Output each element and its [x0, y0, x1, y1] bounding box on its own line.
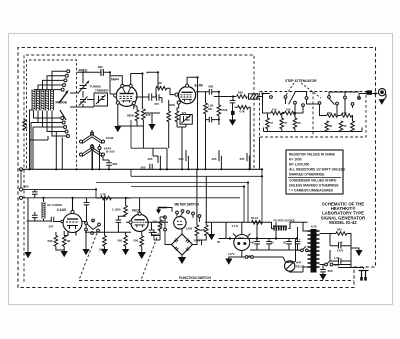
V2 cathode resistors: [167, 111, 171, 122]
svg-text:4.7 K: 4.7 K: [232, 224, 239, 228]
svg-text:20: 20: [283, 241, 287, 245]
AC line plug: [359, 271, 369, 278]
coil shield dashed box: [27, 60, 77, 168]
PS cap ground line: [250, 249, 300, 251]
svg-text:1W: 1W: [208, 107, 213, 111]
meter series resistors: [195, 225, 199, 236]
switch contact ring upper 2: [63, 84, 66, 87]
input terminal B: [19, 196, 22, 199]
coil top leads to switch contacts: [34, 89, 62, 91]
primary winding teeth: [308, 231, 311, 267]
V1 ground: [118, 104, 144, 126]
svg-text:47: 47: [284, 121, 287, 125]
on-off switch: [301, 249, 304, 252]
attenuator output line: [359, 93, 377, 95]
V3 cathode resistor: [54, 236, 58, 247]
wafer1 contact d: [302, 104, 305, 107]
function switch linkage diagonal 2: [141, 216, 165, 280]
svg-text:470: 470: [154, 102, 159, 106]
shielded lead hatch: [249, 94, 259, 99]
wafer2 contact e: [351, 103, 354, 106]
output wire to attenuator: [214, 96, 236, 98]
wafer1 rotor: [289, 92, 313, 105]
ground under divider: [101, 249, 108, 255]
heater bypass cap: [320, 270, 326, 272]
wafer1 contact f: [305, 97, 308, 100]
line cord wire: [338, 268, 364, 270]
routing wire 3: [96, 183, 248, 223]
TUNING variable capacitor: [79, 76, 88, 95]
svg-text:AF CHOKE: AF CHOKE: [47, 203, 62, 207]
svg-text:1.1500: 1.1500: [112, 208, 121, 212]
wafer2 contact b: [328, 96, 331, 99]
heater contact circles: [91, 147, 94, 150]
transformer core: [311, 229, 317, 273]
divider coupling cap: [116, 220, 122, 222]
tube V3 audio oscillator: [63, 198, 82, 236]
grid cap to V3: [51, 217, 53, 223]
svg-text:.047: .047: [48, 225, 54, 229]
V3 ground: [56, 231, 68, 251]
svg-text:1500: 1500: [221, 108, 228, 112]
svg-text:4.7K: 4.7K: [100, 193, 106, 197]
svg-text:METER SWITCH: METER SWITCH: [175, 203, 200, 207]
trimmer capacitor box: [94, 93, 108, 106]
divider resistor 560: [124, 236, 128, 247]
svg-text:680: 680: [209, 85, 214, 89]
chassis ground bus: [21, 168, 262, 170]
rotor lower arrow: [60, 110, 66, 120]
svg-text:STEP ATTENUATOR: STEP ATTENUATOR: [285, 79, 317, 83]
lower 4.7K resistor to dropline: [238, 106, 249, 110]
bypass cap at attenuator input: [230, 101, 236, 103]
svg-text:560: 560: [153, 220, 158, 224]
wafer1 top links: [296, 92, 307, 97]
attenuator internal ground rail: [264, 128, 363, 132]
wafer2 contact d: [344, 96, 347, 99]
attenuator label leader dashes: [286, 83, 321, 98]
svg-text:6.3V: 6.3V: [311, 225, 317, 229]
series resistor vertical at x126: [124, 206, 128, 217]
PS right ground: [351, 248, 359, 250]
feedback resistor on top wire: [101, 196, 112, 200]
cap on audio grid line: [32, 215, 38, 217]
coax output jack: [378, 89, 386, 100]
junction dots: [28, 71, 263, 199]
V3 pin circle: [61, 220, 64, 223]
function switch wafer F1: [85, 219, 101, 234]
wafer bottom rail: [85, 231, 131, 233]
cap under screen: [209, 117, 211, 123]
coax connector body: [367, 90, 373, 94]
svg-text:MODEL IG-42: MODEL IG-42: [329, 220, 357, 225]
svg-text:RANGE: RANGE: [56, 101, 68, 105]
grid wire with cap: [77, 71, 101, 73]
coil L5: [51, 90, 54, 111]
page scan border: [9, 34, 393, 305]
coil L3: [41, 90, 44, 111]
range switch rotor arrow: [59, 93, 67, 103]
attenuator input line: [263, 93, 271, 95]
filter cap h2: [339, 258, 341, 264]
grid cap C5 470: [156, 94, 162, 103]
terminal wire A: [21, 189, 96, 198]
coil L4: [46, 90, 49, 111]
svg-text:.005: .005: [140, 166, 146, 170]
attenuator box drop wire: [259, 137, 261, 169]
bypass cap 1: [158, 156, 160, 162]
wafer2 contact c: [336, 102, 339, 105]
svg-text:20: 20: [271, 241, 275, 245]
V4 ground: [141, 232, 143, 253]
B+ routing wire 2: [131, 169, 262, 176]
svg-text:117V: 117V: [228, 252, 235, 256]
electrolytic cap 4: [295, 242, 301, 244]
filter resistor 10K: [252, 221, 263, 225]
switch contact ring lower 3: [64, 126, 67, 129]
band switch wafer B2: [82, 148, 102, 157]
switch contact ring lower 1: [61, 117, 64, 120]
svg-text:600: 600: [24, 185, 29, 189]
V2 feedback trimmer box: [180, 115, 192, 125]
svg-text:100: 100: [272, 108, 277, 112]
function switch linkage dashed bottom rail: [79, 280, 354, 282]
svg-text:100: 100: [286, 108, 291, 112]
B+ routing wire 1: [131, 120, 167, 148]
switch contact ring upper 3: [64, 79, 67, 82]
coil L2: [37, 90, 40, 111]
wafer1 contact c: [294, 101, 297, 104]
svg-text:.005: .005: [97, 65, 103, 69]
svg-text:56K: 56K: [48, 239, 53, 243]
svg-text:68: 68: [329, 124, 332, 128]
secondary winding teeth: [317, 231, 320, 267]
V2 pin circles: [186, 84, 189, 87]
tube V4 output amp: [131, 214, 148, 231]
V1 cathode resistor R3: [135, 110, 139, 121]
svg-text:56: 56: [217, 240, 221, 244]
svg-text:B+105: B+105: [106, 150, 115, 154]
wire range switch to tuning caps: [70, 93, 94, 107]
svg-text:K= 1000: K= 1000: [289, 158, 302, 162]
meter tube socket: [174, 217, 186, 229]
svg-text:.005: .005: [239, 157, 245, 161]
load resistor R7: [217, 105, 221, 116]
screen resistor R6: [204, 103, 208, 114]
V1 bottom pin drops: [134, 105, 144, 149]
switch contact ring upper 4: [65, 74, 68, 77]
svg-text:68: 68: [298, 121, 301, 125]
svg-text:6AN8: 6AN8: [195, 84, 203, 88]
AF CHOKE coil: [43, 198, 45, 221]
HV secondary lead: [320, 233, 337, 235]
attenuator resistors wafer2: [327, 114, 338, 118]
routing wire 4: [131, 187, 244, 223]
bridge side links: [165, 229, 197, 245]
PS ground stub: [212, 222, 225, 238]
svg-text:560: 560: [118, 239, 123, 243]
svg-text:CONDENSER VALUES IN MFD: CONDENSER VALUES IN MFD: [289, 179, 337, 183]
svg-text:560: 560: [238, 91, 243, 95]
wafer1 contact b: [284, 96, 287, 99]
switch contact ring lower 4: [65, 130, 68, 133]
V3 plate resistor: [62, 236, 66, 247]
680 cap: [106, 163, 112, 165]
coil bottom leads to lower contacts: [34, 111, 61, 119]
V2 plate drop to bus: [197, 77, 199, 169]
coupling capacitor C1: [101, 69, 103, 76]
svg-text:FILTER CHOKE: FILTER CHOKE: [274, 218, 295, 222]
svg-text:.044: .044: [337, 241, 343, 245]
title block: [321, 201, 366, 225]
V2 ground arrow: [151, 113, 153, 124]
V2 plate top wire: [187, 77, 197, 84]
electrolytic cap 2: [266, 242, 272, 244]
HV resistor 560: [336, 232, 347, 236]
rectifier tube socket 6X4: [234, 235, 250, 251]
svg-text:RESISTOR VALUES IN OHMS: RESISTOR VALUES IN OHMS: [289, 153, 336, 157]
V4 cathode resistor: [140, 236, 144, 247]
function switch linkage diagonal 1: [79, 233, 97, 280]
svg-text:6AH6: 6AH6: [106, 136, 114, 140]
step attenuator dashed box: [260, 92, 367, 138]
svg-text:.005: .005: [211, 157, 217, 161]
FILTER CHOKE: [266, 222, 308, 228]
switch contact ring lower 5: [66, 135, 69, 138]
band switch wafer B1: [82, 135, 102, 144]
svg-text:1470: 1470: [337, 249, 344, 253]
svg-text:150: 150: [342, 111, 347, 115]
svg-text:47K: 47K: [145, 113, 151, 117]
svg-text:M= 1,000,000: M= 1,000,000: [289, 163, 309, 167]
feedback cap to wafer: [84, 203, 90, 205]
primary feed vertical: [287, 239, 308, 263]
svg-text:1M: 1M: [67, 239, 72, 243]
svg-text:.005: .005: [147, 157, 153, 161]
wafer2 contact f: [358, 97, 361, 100]
pilot lamp: [285, 261, 295, 271]
V1 pin circles: [121, 84, 124, 87]
V1 plate resistor R3b: [142, 109, 146, 120]
inner RF section dashed shield: [24, 55, 254, 284]
svg-text:680: 680: [113, 162, 118, 166]
svg-text:* = CARBON UNMEASURED: * = CARBON UNMEASURED: [289, 189, 334, 193]
wire cap to plate rail: [83, 72, 158, 76]
attenuator wafer divider dashed: [312, 92, 314, 138]
svg-text:FUNCTION SWITCH: FUNCTION SWITCH: [179, 276, 211, 280]
grid resistor R4 10K horizontal: [156, 86, 167, 90]
svg-text:TRIMMER: TRIMMER: [95, 89, 109, 93]
left return wires: [30, 110, 66, 169]
heater/line row: [229, 251, 283, 259]
svg-text:UNLESS MARKED OTHERWISE: UNLESS MARKED OTHERWISE: [289, 184, 339, 188]
tube V2 6AN8 buffer: [179, 87, 196, 104]
electrolytic cap 1: [254, 242, 260, 244]
wafer1 contact a: [270, 96, 273, 99]
padder variable capacitor: [79, 95, 88, 107]
meter rotor line: [167, 208, 200, 223]
bypass cap 2: [186, 156, 188, 162]
bridge diode ticks: [174, 239, 189, 251]
coupling cap V1->V2: [149, 93, 152, 100]
svg-text:47: 47: [270, 121, 273, 125]
bypass cap 3: [219, 156, 221, 162]
bypass cap 4: [247, 156, 249, 162]
heater winding lead with switch: [320, 264, 325, 266]
transformer left leads: [303, 222, 308, 272]
svg-text:560: 560: [337, 228, 342, 232]
wafer2 input: [313, 94, 359, 109]
jack ground: [379, 99, 385, 105]
svg-text:680K: 680K: [127, 114, 135, 118]
svg-text:6AF4: 6AF4: [111, 78, 119, 82]
svg-text:220: 220: [327, 111, 332, 115]
svg-text:3300: 3300: [199, 228, 206, 232]
V4 output cap: [149, 230, 155, 232]
small resistor on left dashed edge: [23, 120, 27, 131]
bridge ground: [181, 255, 183, 257]
terminal wire B: [21, 197, 240, 199]
svg-text:1500: 1500: [186, 227, 193, 231]
svg-text:4.7K: 4.7K: [239, 110, 245, 114]
svg-text:1.20: 1.20: [334, 256, 340, 260]
input terminal A: [19, 188, 22, 191]
svg-text:.005: .005: [178, 157, 184, 161]
meter rectifier bridge: [172, 234, 193, 255]
plate bypass cap: [209, 89, 211, 95]
vertical feed V2 plate down: [261, 169, 263, 222]
ground stub below 560: [232, 97, 234, 101]
left shield stub: [20, 169, 22, 188]
svg-text:6AQ5: 6AQ5: [132, 209, 141, 213]
outer chassis dashed border: [18, 48, 376, 288]
svg-text:6 AU8: 6 AU8: [57, 208, 66, 212]
cap .005 left of bus: [150, 164, 152, 170]
divider resistor 1500: [103, 236, 107, 247]
wafer2 contact a: [318, 102, 321, 105]
svg-text:56-10: 56-10: [251, 216, 259, 220]
svg-text:ALL RESISTORS 1/2 WATT UNLESS: ALL RESISTORS 1/2 WATT UNLESS: [289, 168, 346, 172]
V1 top lead wires: [110, 72, 142, 94]
left return wire with ground: [27, 198, 29, 252]
tube V1 6AF4 oscillator: [116, 86, 137, 107]
electrolytic blob: [231, 111, 235, 115]
PS mid rail: [225, 222, 298, 238]
svg-text:470: 470: [182, 111, 187, 115]
svg-text:500: 500: [134, 239, 139, 243]
meter switch contact row: [164, 210, 201, 231]
attenuator resistors wafer1: [266, 118, 270, 129]
svg-text:40: 40: [251, 241, 255, 245]
svg-text:MARKED OTHERWISE: MARKED OTHERWISE: [289, 173, 325, 177]
switch contact ring lower 2: [62, 121, 65, 124]
B+ line: [205, 221, 266, 223]
meter hook arrow: [159, 208, 168, 210]
svg-text:56: 56: [344, 124, 347, 128]
electrolytic cap 3: [286, 242, 292, 244]
left meter cap: [151, 233, 157, 235]
left meter divider resistor 560: [158, 220, 162, 231]
svg-text:.500: .500: [327, 269, 333, 273]
filter cap h1: [339, 243, 341, 249]
switch contact ring upper 5: [67, 70, 70, 73]
wafer2 top links: [329, 92, 359, 96]
switch contact ring upper 1: [61, 88, 64, 91]
output resistor 560: [237, 95, 248, 99]
coil L1: [32, 90, 35, 111]
coupling cap between input lines: [32, 192, 38, 194]
notes box: [286, 150, 346, 194]
V1 plate drop wire: [141, 74, 143, 110]
